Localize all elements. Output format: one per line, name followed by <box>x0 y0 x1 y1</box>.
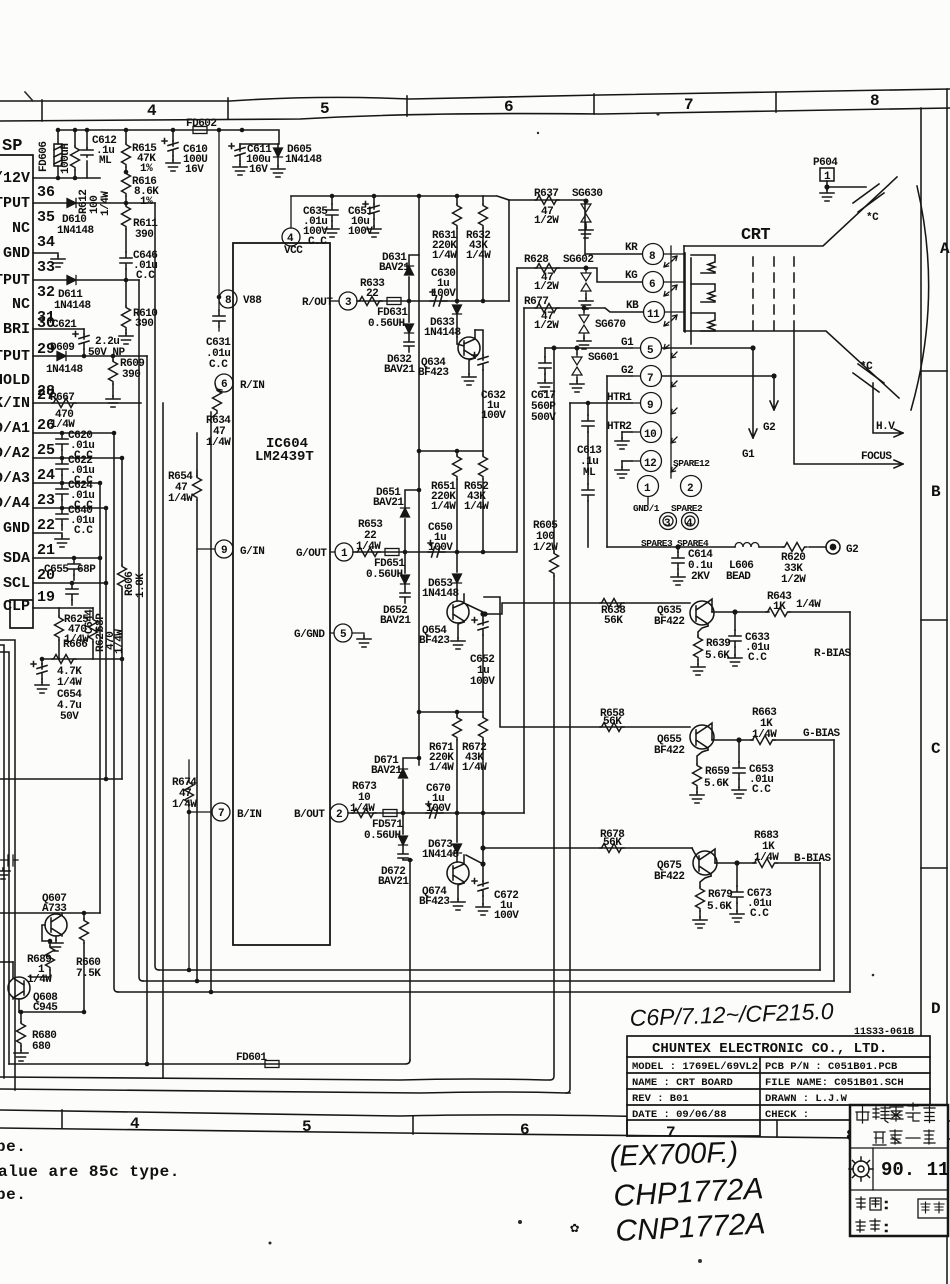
border top band line 1 <box>0 89 950 101</box>
svg-text:G1: G1 <box>742 449 755 461</box>
wire R606 down <box>121 659 123 779</box>
svg-text:BF422: BF422 <box>654 616 685 628</box>
svg-text:G/IN: G/IN <box>240 546 264 558</box>
wire vertical x139 pin32 down <box>139 280 143 981</box>
border right tick C/D <box>921 867 947 869</box>
svg-text:30: 30 <box>37 315 55 332</box>
junction dot P604 <box>824 184 829 189</box>
svg-text:1/4W: 1/4W <box>752 729 777 741</box>
capacitor C624 <box>56 483 68 505</box>
svg-text:100uH: 100uH <box>60 143 72 174</box>
capacitor C630 <box>430 290 447 307</box>
svg-text:1N4148: 1N4148 <box>285 154 323 166</box>
svg-text:26: 26 <box>37 417 55 434</box>
wire Q675 emitter <box>700 876 711 887</box>
resistor R612 <box>71 130 80 178</box>
wire pin23 row <box>33 507 106 509</box>
wire pin19 CLP row <box>33 607 93 609</box>
transistor Q607 <box>45 913 67 940</box>
svg-text:1/4W: 1/4W <box>100 191 112 216</box>
junction dot Q635 collector <box>482 609 737 616</box>
svg-text:1/4W: 1/4W <box>206 437 231 449</box>
diode D652 down <box>400 552 410 603</box>
resistor R610 <box>122 306 131 333</box>
svg-text:2: 2 <box>336 809 342 821</box>
svg-text:25: 25 <box>37 442 55 459</box>
svg-text:1/4W: 1/4W <box>796 599 821 611</box>
svg-text:11S33-061B: 11S33-061B <box>854 1027 914 1038</box>
svg-text:1/4W: 1/4W <box>466 250 491 262</box>
svg-text:pe.: pe. <box>0 1138 26 1156</box>
svg-text:*C: *C <box>860 361 873 373</box>
speck mid sheet <box>537 132 539 134</box>
wire Q635 collector row <box>712 611 850 613</box>
pin 4 VCC circle <box>282 196 300 246</box>
wire vertical x197 loop G <box>196 433 198 981</box>
resistor R638 <box>600 599 624 608</box>
svg-text:5.6K: 5.6K <box>704 778 729 790</box>
wire G1 arrow <box>662 348 757 438</box>
transistor Q608 <box>8 962 30 1012</box>
svg-text:DRAWN : L.J.W: DRAWN : L.J.W <box>765 1093 848 1105</box>
wire left outer vertical x15 <box>0 640 15 1090</box>
stamp flower glyph <box>849 1157 873 1181</box>
svg-text:390: 390 <box>135 318 153 330</box>
stamp name 陳燦 <box>921 1202 944 1213</box>
capacitor C650 <box>428 541 445 558</box>
svg-text:NAME : CRT BOARD: NAME : CRT BOARD <box>632 1077 733 1089</box>
wire pin12 stub <box>622 460 632 462</box>
svg-text:1%: 1% <box>140 163 153 175</box>
svg-text:100V: 100V <box>470 676 495 688</box>
wire Q635 emitter <box>698 626 708 636</box>
resistor R677 <box>535 304 559 313</box>
svg-text:1/4W: 1/4W <box>114 629 126 654</box>
ground HTR2 <box>615 432 629 449</box>
wire pin25 row <box>33 457 122 459</box>
resistor R639 <box>694 636 703 664</box>
svg-text:B/IN: B/IN <box>237 809 261 821</box>
svg-text:1/2W: 1/2W <box>534 320 559 332</box>
wire pin27 row <box>33 402 141 404</box>
wire pin30 row <box>33 328 84 330</box>
title block outline <box>627 1036 930 1120</box>
svg-text:G2: G2 <box>621 365 633 377</box>
gun assembly wall 2 <box>690 258 692 344</box>
capacitor C672 <box>466 813 490 915</box>
connector G2 terminal <box>826 540 840 554</box>
pin HTR2 10 circle <box>632 422 662 443</box>
svg-text:R666: R666 <box>63 639 87 651</box>
svg-text:B-BIAS: B-BIAS <box>794 853 832 865</box>
border right tick B/C <box>921 619 947 621</box>
svg-text:B/OUT: B/OUT <box>294 809 325 821</box>
junction dot heater <box>586 401 591 406</box>
wire pin33 gnd stub <box>33 253 58 256</box>
resistor R653 <box>356 548 380 557</box>
svg-text:5: 5 <box>340 629 347 641</box>
svg-text:BF422: BF422 <box>654 745 685 757</box>
capacitor C670 <box>426 802 443 819</box>
junction dot G1 <box>750 345 755 350</box>
svg-text:HTR1: HTR1 <box>607 392 632 404</box>
svg-text:33: 33 <box>37 259 55 276</box>
wire Q608 collector up <box>0 961 13 963</box>
svg-text:2KV: 2KV <box>691 571 710 583</box>
resistor R672 <box>479 712 488 813</box>
wire vertical x106 SCL down <box>105 508 107 779</box>
junction dot Q655 collector <box>736 737 741 742</box>
transistor Q634 <box>457 330 480 359</box>
svg-text:P604: P604 <box>813 157 838 169</box>
svg-text:CRT: CRT <box>741 226 770 245</box>
svg-text:BAV21: BAV21 <box>384 364 415 376</box>
diode D631 up <box>405 255 420 301</box>
svg-text:56K: 56K <box>603 716 622 728</box>
junction dot SG670 <box>582 306 587 311</box>
title block bottom extension <box>627 1120 760 1136</box>
svg-text:1/4W: 1/4W <box>27 974 52 986</box>
svg-text:SP: SP <box>2 137 22 156</box>
svg-text:NC: NC <box>12 220 30 237</box>
svg-text:1/4W: 1/4W <box>172 799 197 811</box>
resistor R643 <box>766 608 790 617</box>
junction dot pin26 <box>112 431 117 436</box>
svg-text:C: C <box>931 740 941 758</box>
wire pin20 SCL row <box>33 582 106 584</box>
wire R-bias base row y603 <box>485 603 690 614</box>
socket bus vertical 1 <box>670 246 672 478</box>
svg-text:C.C: C.C <box>750 908 769 920</box>
wire vertical x147 pin29 down <box>146 356 148 1064</box>
wire Q655 emitter <box>697 750 708 764</box>
junction dots mid <box>40 556 125 782</box>
wire G-bias loop right x834 <box>833 740 835 981</box>
grid dashed line 1 <box>752 257 754 335</box>
border right line inner <box>920 108 922 1120</box>
svg-text:1/4W: 1/4W <box>57 677 82 689</box>
pin 1 G/OUT circle <box>330 543 353 561</box>
border bottom band line 1 <box>0 1110 950 1121</box>
svg-text:1/2W: 1/2W <box>533 542 558 554</box>
wire R/OUT row y301 <box>357 300 509 302</box>
svg-text:5: 5 <box>647 345 654 357</box>
pin 6 R/IN circle <box>215 374 233 392</box>
wire FOCUS <box>794 331 903 468</box>
svg-text:32: 32 <box>37 284 55 301</box>
wire Q675 collector row <box>715 862 820 864</box>
title block center divider <box>626 1120 628 1136</box>
svg-text:R/IN: R/IN <box>240 380 264 392</box>
svg-text:R637: R637 <box>534 188 558 200</box>
resistor R637 <box>535 196 559 205</box>
tube neck left edge <box>683 246 685 331</box>
op-amp U IC604 body <box>233 243 330 945</box>
diode D611 <box>67 276 76 285</box>
svg-text:BAV21: BAV21 <box>378 876 409 888</box>
ground R680 <box>14 1050 28 1061</box>
svg-text:BF422: BF422 <box>654 871 685 883</box>
speck right mid <box>872 974 875 977</box>
resistor R651 <box>453 451 462 552</box>
svg-text:390: 390 <box>135 229 153 241</box>
tube face arc <box>911 186 929 410</box>
svg-text:9: 9 <box>221 545 227 557</box>
svg-text:R677: R677 <box>524 296 548 308</box>
svg-text:A: A <box>940 240 950 258</box>
svg-text:ML: ML <box>99 155 112 167</box>
border bottom band line 2 <box>0 1128 950 1139</box>
svg-text:1/2W: 1/2W <box>781 574 806 586</box>
pin KG 6 circle <box>643 272 686 293</box>
capacitor C654 <box>31 659 49 693</box>
svg-text:4: 4 <box>287 233 294 245</box>
wire pin24 row <box>33 482 100 484</box>
wire VBB drop x219 <box>218 130 220 299</box>
junction dot C614 <box>675 544 680 549</box>
svg-text:1: 1 <box>824 171 831 183</box>
ground left edge <box>0 868 10 879</box>
svg-text:1N4148: 1N4148 <box>57 225 95 237</box>
svg-text:1N4148: 1N4148 <box>54 300 92 312</box>
svg-text:SPARE12: SPARE12 <box>673 458 710 469</box>
svg-text:8: 8 <box>870 92 880 110</box>
ground pin22 <box>55 536 69 547</box>
wire B-bias base row y848 <box>483 847 692 849</box>
svg-text:1N4148: 1N4148 <box>424 327 462 339</box>
gun electrode KB <box>691 313 715 331</box>
svg-text:7: 7 <box>647 373 653 385</box>
junction dot G2 <box>771 373 776 378</box>
speck top-left diagonal <box>25 92 33 101</box>
junction dot VBB <box>217 295 222 300</box>
capacitor C646 <box>120 252 132 269</box>
svg-text:C655: C655 <box>44 564 69 576</box>
capacitor left edge stub <box>0 855 18 866</box>
junction dot SG602 <box>584 266 589 271</box>
svg-text:K/IN: K/IN <box>0 395 30 412</box>
svg-text:5: 5 <box>302 1118 312 1136</box>
stamp chinese row2 研發一處 <box>873 1130 935 1145</box>
svg-text:1/4W: 1/4W <box>431 501 456 513</box>
svg-text:FOCUS: FOCUS <box>861 451 892 463</box>
svg-text:19: 19 <box>37 589 55 606</box>
capacitor C651 <box>363 196 381 237</box>
junction dot pin23 <box>104 506 109 511</box>
junction dot pin24 <box>98 481 103 486</box>
wire KG row <box>517 268 642 282</box>
border right line outer <box>946 89 948 1284</box>
svg-text:G/OUT: G/OUT <box>296 548 327 560</box>
resistor R667 <box>52 399 76 408</box>
title block mid vertical <box>759 1057 761 1120</box>
gun electrode KR <box>691 255 715 273</box>
svg-text:1/4W: 1/4W <box>464 501 489 513</box>
svg-text:1/4W: 1/4W <box>462 762 487 774</box>
svg-text:BAV21: BAV21 <box>371 765 402 777</box>
wire B/OUT row y813 <box>348 812 524 814</box>
socket arrows HTR2 <box>671 437 677 443</box>
wire vertical x114 DA1 down <box>114 433 118 992</box>
wire R666 row <box>42 658 122 660</box>
svg-text:1: 1 <box>341 548 348 560</box>
inductor FD671 <box>383 810 397 817</box>
svg-text:50V: 50V <box>60 711 79 723</box>
wire G rail y451 <box>419 450 483 452</box>
spark gap SG601 <box>570 348 584 392</box>
grid dashed line 2 <box>773 257 775 335</box>
stamp divider row2 <box>850 1189 948 1191</box>
title block row divider 2 <box>627 1072 930 1074</box>
svg-text:9: 9 <box>647 400 653 412</box>
pin GND/1 circle <box>638 476 659 506</box>
wire B-bias loop right x820 <box>819 863 821 970</box>
capacitor C620 <box>56 433 68 455</box>
resistor R631 <box>453 196 462 301</box>
wire G2 stub to pin7 <box>607 375 632 377</box>
resistor R615 <box>122 130 131 172</box>
svg-text:CLP: CLP <box>3 598 30 615</box>
svg-text:KB: KB <box>626 300 639 312</box>
svg-text:1N4148: 1N4148 <box>422 588 460 600</box>
wire HTR1 row <box>570 402 632 404</box>
ground pin33 <box>51 256 65 267</box>
svg-text:/ GND: / GND <box>0 245 30 262</box>
pin 9 G/IN circle <box>197 540 233 558</box>
wire HTR2 row <box>622 431 632 433</box>
inductor FD606 <box>54 130 62 178</box>
pin 8 VBB circle <box>219 290 237 308</box>
svg-text:HOLD: HOLD <box>0 372 30 389</box>
svg-text:ML: ML <box>583 467 596 479</box>
svg-text:6: 6 <box>649 279 655 291</box>
fuse FD601 <box>265 1061 279 1068</box>
svg-text:1/4W: 1/4W <box>754 852 779 864</box>
svg-text:✿: ✿ <box>570 1220 579 1237</box>
transistor Q675 <box>693 849 717 876</box>
wire Q654 emitter gnd <box>458 622 464 638</box>
anode cap bottom <box>853 364 884 392</box>
border top tick 4 <box>593 94 595 114</box>
border right tick A/B <box>921 370 947 372</box>
capacitor C612 <box>81 130 93 178</box>
junction dots top rail <box>56 128 245 283</box>
svg-text:G/GND: G/GND <box>294 629 325 641</box>
junction dots G row <box>403 449 486 617</box>
wire top rail y130 <box>58 130 279 144</box>
junction dot R674 B/IN <box>187 810 192 815</box>
spark gap SG630 <box>579 201 593 238</box>
svg-text:SPARE3: SPARE3 <box>641 538 673 549</box>
capacitor C631 <box>213 299 225 331</box>
svg-text:1K: 1K <box>773 601 786 613</box>
svg-text:FD606: FD606 <box>38 141 50 172</box>
svg-text:3: 3 <box>664 518 671 530</box>
ground R679 <box>693 917 707 928</box>
stamp chinese 繪圖: <box>856 1197 887 1210</box>
capacitor C673 <box>730 863 744 922</box>
svg-text:GND: GND <box>3 520 30 537</box>
svg-text:56K: 56K <box>604 615 623 627</box>
svg-text:BAV21: BAV21 <box>380 615 411 627</box>
ground G/GND <box>357 636 371 647</box>
diode D671 up <box>399 758 420 813</box>
svg-text:1/4W: 1/4W <box>168 493 193 505</box>
svg-text:5.6K: 5.6K <box>705 650 730 662</box>
resistor R616 <box>122 172 131 205</box>
wire P604 to anode <box>827 186 866 188</box>
resistor R663 <box>751 736 775 745</box>
resistor R634 <box>211 389 222 418</box>
junction dots B row <box>401 710 486 867</box>
wire vertical x155 pin35 down <box>155 203 159 970</box>
stamp chinese 核准: <box>856 1219 887 1232</box>
junction dots Q cluster <box>19 911 87 1015</box>
svg-text:LM2439T: LM2439T <box>255 449 314 465</box>
svg-text:PCB P/N : C051B01.PCB: PCB P/N : C051B01.PCB <box>765 1061 898 1073</box>
resistor R606 <box>118 458 127 659</box>
resistor R654 <box>193 470 202 500</box>
svg-text:C.C: C.C <box>308 236 327 248</box>
svg-text:DATE : 09/06/88: DATE : 09/06/88 <box>632 1109 727 1121</box>
tube bottom edge <box>684 331 899 398</box>
stamp chinese row1 中強電子股 <box>856 1103 935 1123</box>
svg-text:1.8K: 1.8K <box>135 573 147 598</box>
svg-text:D/A4: D/A4 <box>0 495 30 512</box>
svg-text:SPARE2: SPARE2 <box>671 503 703 514</box>
gun assembly wall 1 <box>684 253 686 332</box>
diode D673 down <box>453 813 462 862</box>
svg-text:3: 3 <box>345 297 352 309</box>
wire Q608 emitter row <box>19 1011 84 1013</box>
svg-text:5.6K: 5.6K <box>707 901 732 913</box>
svg-text:100V: 100V <box>481 410 506 422</box>
svg-text:6: 6 <box>504 98 514 116</box>
pin KR 8 circle <box>643 244 686 265</box>
connector block outline <box>0 155 33 628</box>
junction dot pin25 <box>120 456 125 461</box>
resistor R628 <box>535 264 559 273</box>
svg-text:2: 2 <box>687 483 693 495</box>
diode D651 up <box>401 490 420 552</box>
junction dots G1 row <box>552 346 580 351</box>
svg-text:36: 36 <box>37 184 55 201</box>
resistor R666 <box>52 655 76 664</box>
svg-text:FD601: FD601 <box>236 1052 267 1064</box>
svg-text:24: 24 <box>37 467 55 484</box>
pin SPARE3 double circle <box>660 513 677 530</box>
svg-text:8: 8 <box>649 251 656 263</box>
spark gap SG602 <box>579 268 593 309</box>
wire riser x517 <box>516 268 518 552</box>
svg-text:29: 29 <box>37 341 55 358</box>
svg-text:G2: G2 <box>846 544 858 556</box>
grid dashed line 3 <box>793 257 795 335</box>
svg-text:100V: 100V <box>431 288 456 300</box>
wire G1 row to socket <box>545 347 632 349</box>
socket arrows 12 <box>671 466 677 472</box>
diode D633 down <box>453 301 462 337</box>
wire Q607 base left drop <box>42 925 50 941</box>
wire pin21 SDA row <box>33 557 100 559</box>
svg-text:56K: 56K <box>603 837 622 849</box>
svg-text:22: 22 <box>37 517 55 534</box>
svg-text:REV : B01: REV : B01 <box>632 1093 689 1105</box>
ground Q634 <box>462 374 476 385</box>
svg-text:BRI: BRI <box>3 321 30 338</box>
svg-text:MODEL : 1769EL/69VL2: MODEL : 1769EL/69VL2 <box>632 1061 758 1073</box>
svg-text:1/4W: 1/4W <box>429 762 454 774</box>
